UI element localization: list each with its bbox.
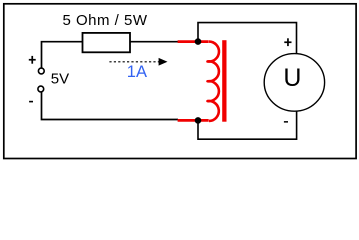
wire: node B to voltmeter - terminal bbox=[198, 111, 297, 139]
label + (source) bbox=[29, 56, 36, 64]
core bar (red) bbox=[222, 40, 226, 122]
resistor R1 bbox=[83, 33, 131, 52]
inductor L1 top lead (red) bbox=[178, 40, 209, 43]
node A (top junction dot) bbox=[195, 38, 202, 45]
inductor L1 bottom lead (red) bbox=[178, 119, 209, 122]
terminal + (positive source terminal) bbox=[38, 68, 44, 74]
label + (voltmeter) bbox=[284, 38, 291, 46]
wire: resistor to node A bbox=[130, 41, 178, 43]
wire: - terminal to bottom rail to coil bbox=[42, 92, 179, 120]
node B (bottom junction dot) bbox=[195, 117, 202, 124]
svg-text:U: U bbox=[283, 64, 301, 92]
current arrow 1A (dashed) bbox=[109, 58, 167, 66]
wire: + terminal up to resistor bbox=[42, 42, 83, 68]
svg-text:5 Ohm / 5W: 5 Ohm / 5W bbox=[63, 12, 148, 29]
wire: node A to voltmeter + terminal bbox=[198, 23, 297, 54]
inductor L1 coil (red, 4 loops) bbox=[208, 42, 219, 121]
svg-text:5V: 5V bbox=[51, 70, 69, 87]
label - (source) bbox=[29, 101, 33, 103]
voltmeter U1 body bbox=[264, 54, 324, 112]
label - (voltmeter) bbox=[284, 121, 288, 123]
svg-text:1A: 1A bbox=[127, 63, 147, 81]
terminal - (negative source terminal) bbox=[38, 86, 44, 92]
